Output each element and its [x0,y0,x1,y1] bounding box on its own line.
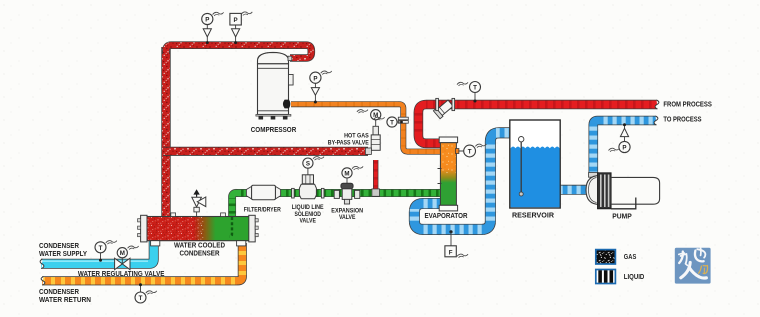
gauge S on solenoid valve [303,157,324,169]
reservoir tank [510,120,560,208]
gauge T on return line [135,283,157,303]
wire: TO PROCESS blue line from pump [593,121,656,178]
gauge P (circle) on discharge top pipe [202,12,224,44]
evaporator [438,137,464,211]
svg-text:GAS: GAS [624,254,637,261]
wire: FROM PROCESS red water line into evaporator [418,105,657,144]
relief valve on condenser [192,189,206,216]
gauge P on suction line near compressor [310,71,332,104]
svg-text:WATER SUPPLY: WATER SUPPLY [39,251,87,258]
svg-text:CONDENSER: CONDENSER [180,251,220,258]
svg-text:T: T [390,120,394,127]
svg-text:M: M [344,170,349,177]
flow switch F under chilled loop [445,230,468,257]
svg-text:S: S [306,161,310,168]
gauge M on expansion valve [342,166,363,178]
svg-text:FILTER/DRYER: FILTER/DRYER [244,207,282,213]
svg-text:P: P [313,75,317,82]
wire: condenser water supply (cyan) [41,241,154,264]
svg-text:T: T [468,149,472,156]
svg-text:LIQUID: LIQUID [624,274,645,281]
gauge P (square) on discharge top pipe [230,12,252,44]
svg-text:CONDENSER: CONDENSER [39,289,79,296]
svg-text:EVAPORATOR: EVAPORATOR [425,213,468,220]
wire: reservoir to pump suction [558,185,588,195]
expansion valve [334,178,360,204]
wire: hot gas by-pass outlet (thin red down to liquid line) [373,160,378,192]
svg-text:WATER REGULATING VALVE: WATER REGULATING VALVE [78,271,165,278]
svg-text:FROM PROCESS: FROM PROCESS [663,102,712,109]
svg-text:RESERVOIR: RESERVOIR [512,213,554,220]
svg-text:CONDENSER: CONDENSER [39,243,79,250]
wire: orange suction line (evaporator to compressor) [291,104,441,151]
liquid line solenoid valve [292,168,324,199]
filter/dryer [246,185,280,200]
hot gas by-pass valve body [365,120,380,196]
gauge T on FROM PROCESS line [457,82,481,103]
wire: green liquid line condenser to evaporator [232,193,441,217]
Y-strainer on FROM PROCESS line [433,98,454,118]
gauge T on supply line [95,241,117,262]
svg-text:SOLENIOD: SOLENIOD [294,212,321,218]
svg-text:PUMP: PUMP [612,214,632,221]
water regulating valve (bowtie) on cyan line [115,246,139,270]
svg-text:HOT GAS: HOT GAS [344,134,369,140]
svg-text:P: P [205,17,209,24]
wire: discharge branch to hot-gas by-pass valve [163,147,368,156]
svg-text:VALVE: VALVE [339,215,356,221]
svg-text:P: P [622,145,626,152]
svg-text:TO PROCESS: TO PROCESS [663,117,701,124]
condenser (water cooled) [138,189,259,246]
gauge M on hot gas by-pass valve [357,110,381,120]
svg-text:M: M [373,112,378,119]
svg-text:T: T [99,245,103,252]
liquid pick-up tube inside condenser [230,217,233,237]
svg-text:VALVE: VALVE [299,218,316,224]
logo (blue square with white calligraphy) [675,248,711,284]
svg-text:T: T [473,85,477,92]
svg-text:WATER RETURN: WATER RETURN [39,297,91,304]
legend gas swatch [596,250,616,264]
svg-text:F: F [449,249,453,256]
compressor [256,52,293,119]
wire: discharge red loop (compressor top to condenser) [161,47,170,217]
svg-text:COMPRESSOR: COMPRESSOR [251,127,297,134]
pump [586,173,660,209]
svg-text:P: P [234,17,238,24]
svg-text:LIQUID LINE: LIQUID LINE [292,205,324,211]
gauge T on evaporator [464,144,487,157]
svg-text:M: M [120,250,125,257]
legend liquid swatch [596,270,616,284]
gauge P on TO PROCESS line [609,123,631,152]
svg-text:BY-PASS VALVE: BY-PASS VALVE [328,140,369,146]
wire: condenser water return (orange/yellow) [42,243,242,281]
svg-text:T: T [139,295,143,302]
pipe break ends [655,100,659,109]
wire: chilled water loop evaporator to reservoir [414,133,511,230]
svg-text:EXPANSION: EXPANSION [331,209,363,215]
svg-text:WATER COOLED: WATER COOLED [174,243,225,250]
gauge T on suction riser [374,117,403,127]
